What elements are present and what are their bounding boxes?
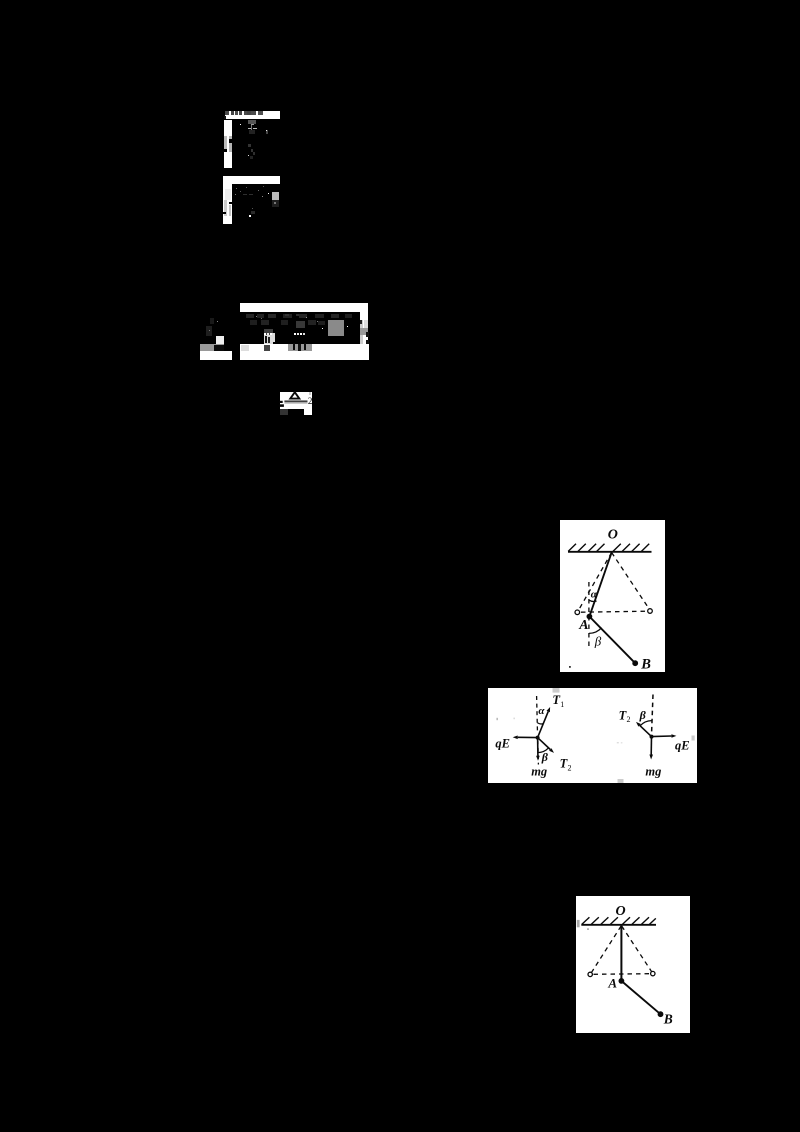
string OA vertical — [620, 925, 622, 980]
left ball open circle — [575, 610, 580, 615]
svg-text:1: 1 — [560, 700, 564, 709]
right center dot — [649, 735, 653, 739]
dashed string to right position — [621, 926, 651, 972]
T1 arrow — [537, 712, 548, 738]
patch C bottom main white band — [240, 344, 369, 360]
svg-text:A: A — [607, 975, 617, 990]
patch C small white window with glyphs — [264, 335, 275, 344]
ball A dot — [618, 978, 624, 984]
svg-text:mg: mg — [531, 765, 547, 779]
left edge marks — [280, 401, 283, 403]
dashed string to left position — [591, 926, 621, 972]
patch C left white square — [216, 336, 224, 344]
figure 1 white background — [560, 520, 665, 672]
svg-text:A: A — [578, 618, 588, 633]
patch B white bar — [223, 176, 280, 185]
svg-text:α: α — [538, 705, 545, 717]
patch B column black marks — [229, 202, 232, 204]
svg-text:β: β — [594, 633, 602, 648]
figure 2 white background — [488, 688, 697, 783]
svg-text:mg: mg — [645, 764, 661, 778]
ceiling hatches — [581, 917, 655, 924]
patch D bottom-left dark square — [280, 409, 288, 416]
svg-text:B: B — [640, 656, 651, 671]
svg-text:qE: qE — [675, 738, 690, 752]
ball B dot — [657, 1011, 663, 1017]
stray dot — [569, 666, 571, 668]
T2 arrow (left diagram) — [537, 738, 550, 750]
patch A glyph row — [225, 111, 228, 115]
string OA solid — [589, 552, 611, 616]
patch A column gray stripes — [224, 136, 227, 150]
svg-text:O: O — [608, 527, 618, 542]
qE arrow (right) — [651, 735, 671, 738]
left diagram: dashed vertical below center — [537, 741, 540, 765]
patch A faint interior glyphs — [248, 120, 256, 124]
rod AB — [621, 980, 660, 1013]
patch D white tab — [304, 409, 311, 416]
patch C bottom-left gray strip — [200, 344, 225, 351]
mg arrow (left diagram) — [536, 738, 538, 756]
patch C top white bar — [240, 303, 368, 312]
right ball open circle — [650, 971, 654, 975]
dashed string to right position — [611, 552, 649, 609]
ball B dot — [632, 660, 638, 666]
ceiling hatches — [568, 544, 649, 552]
svg-text:B: B — [662, 1011, 672, 1026]
patch B column gray stripes — [225, 189, 231, 200]
fraction bar — [284, 401, 307, 402]
svg-text:α: α — [590, 588, 597, 600]
horizontal dashed line — [581, 611, 647, 612]
patch C right white column — [360, 312, 368, 361]
patch C bottom gray strip with glyphs — [288, 344, 312, 351]
patch A bar left-edge tick — [224, 116, 226, 119]
patch D white rect — [280, 392, 312, 409]
svg-text:2: 2 — [626, 715, 630, 724]
patch C black box lighter contents — [296, 321, 306, 329]
beta arc right — [640, 721, 651, 726]
T2 arrow (right diagram) — [639, 725, 651, 736]
horizontal dashed line — [593, 972, 649, 975]
patch A white bar — [225, 111, 280, 119]
svg-text:β: β — [638, 708, 646, 722]
alpha arc — [589, 600, 597, 601]
patch B light-gray rect — [272, 192, 279, 200]
svg-text:2: 2 — [567, 763, 571, 772]
patch B interior speckles — [236, 188, 237, 189]
left center dot — [535, 736, 539, 740]
rod AB — [589, 616, 635, 663]
alpha arc — [537, 723, 543, 724]
ceiling line — [568, 551, 652, 553]
patch C faint text rows inside box — [246, 314, 254, 319]
patch C left faint area — [206, 326, 212, 336]
beta arc left — [538, 748, 549, 753]
patch C bottom-left white strip — [200, 351, 233, 360]
left ball open circle — [588, 972, 592, 976]
ceiling line — [581, 923, 656, 925]
patch D delta-over-2 fraction — [279, 391, 313, 416]
edge smudges — [552, 688, 559, 693]
patch A left white column — [224, 120, 232, 168]
patch B left white column — [223, 184, 232, 224]
left diagram: dashed vertical above center — [535, 696, 538, 733]
patch A column black marks — [229, 139, 232, 142]
figure 3 white background — [576, 896, 690, 1033]
delta glyph — [290, 392, 299, 398]
ball A dot — [586, 613, 592, 619]
vertical dashed line through A — [588, 582, 590, 647]
patch C bottom-left black blob — [214, 345, 224, 352]
right ball open circle — [647, 608, 652, 613]
svg-text:2: 2 — [308, 396, 313, 406]
patch C box speckles — [256, 316, 257, 317]
tiny dot — [587, 928, 588, 929]
dashed string to left position — [578, 552, 611, 610]
patch D gray top-right — [309, 392, 312, 395]
mg arrow (right diagram) — [650, 737, 652, 755]
right diagram: dashed vertical — [651, 695, 652, 733]
svg-text:qE: qE — [495, 737, 510, 751]
qE arrow (left) — [518, 736, 538, 738]
beta arc — [589, 627, 602, 633]
left edge smudge — [576, 919, 579, 926]
svg-text:O: O — [615, 904, 625, 919]
patch B lower faint marks — [251, 211, 255, 215]
